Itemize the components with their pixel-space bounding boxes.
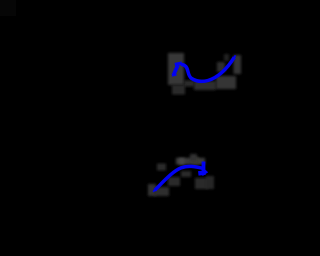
ghost bright spot above arc 2 shaft — [179, 158, 185, 165]
ghost faint left of arc 1 tail — [224, 54, 229, 61]
ghost bond band under arc 1 right — [216, 76, 236, 89]
curly arrow 2 head — [202, 162, 206, 175]
ghost blob below arc 2 tail — [154, 187, 169, 196]
ghost blob below arc 2 mid — [168, 177, 180, 186]
ghost bond band under arc 1 left — [184, 81, 194, 87]
ghost blob left of arc 2 tail — [148, 184, 156, 196]
ghost blob lower right of arrowhead 2 — [206, 176, 214, 189]
ghost band above arc 2 shaft — [176, 158, 205, 165]
ghost blob above arc 2 tail — [157, 164, 166, 171]
curly arrow 2 shaft — [155, 166, 203, 190]
ghost bond band under arc 1 middle — [194, 81, 216, 90]
curly arrow 1 shaft — [181, 57, 234, 81]
ghost blob below label box — [172, 85, 185, 95]
ghost blob below arrowhead 2 — [195, 178, 208, 189]
curly arrow 2 tail taper — [153, 189, 155, 192]
ghost blob above arrowhead 2 — [190, 154, 197, 161]
ghost atom near arc 1 tail left — [217, 62, 225, 72]
curly arrow 1 tail taper — [234, 55, 236, 58]
ghost olive spot above arrowhead 2 — [192, 158, 199, 165]
ghost blob below arc 2 shaft — [181, 171, 191, 177]
ghost label box N1 — [168, 53, 184, 85]
curly arrow 1 head — [175, 63, 182, 64]
corner patch — [0, 0, 16, 16]
ghost atom near arc 1 tail right — [234, 55, 242, 74]
